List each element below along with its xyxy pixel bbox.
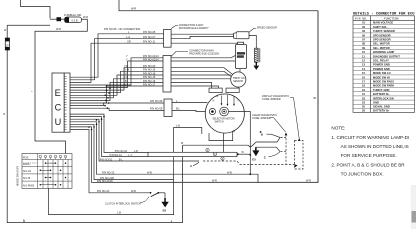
svg-text:P/N NO-11: P/N NO-11: [143, 41, 156, 44]
svg-text:C: C: [264, 156, 267, 160]
svg-text:0.3 B: 0.3 B: [72, 19, 78, 23]
svg-text:03: 03: [362, 29, 365, 33]
wire W-R from fusible link: [35, 19, 87, 153]
svg-text:BATTERY B+: BATTERY B+: [373, 109, 390, 113]
wire ECU pin14 to E5 line: [70, 114, 148, 152]
svg-text:N/1-LO: N/1-LO: [23, 170, 31, 173]
svg-text:SELECTOR MOTOR/: SELECTOR MOTOR/: [213, 119, 235, 121]
labels J3 wires: [150, 100, 181, 110]
svg-text:P/N NO-23: P/N NO-23: [97, 190, 110, 193]
svg-text:P/N NO-17: P/N NO-17: [143, 83, 156, 86]
svg-text:CODE JUMPER: CODE JUMPER: [262, 97, 281, 101]
wire ECU pin19: [70, 127, 97, 182]
svg-text:MAIN VOLTAGE: MAIN VOLTAGE: [373, 21, 393, 25]
svg-text:CODE JUMPER: CODE JUMPER: [252, 116, 271, 120]
svg-text:14: 14: [362, 67, 365, 71]
svg-text:MODE SW PARK: MODE SW PARK: [373, 84, 394, 88]
svg-text:A: A: [190, 164, 192, 168]
cable assembly rect: [148, 152, 237, 156]
svg-text:P/N NO-18: P/N NO-18: [143, 72, 156, 75]
svg-text:GR: GR: [127, 41, 131, 44]
wire J3 pin2 to selector motor left terminal: [172, 110, 209, 111]
svg-text:W-B: W-B: [131, 190, 136, 193]
svg-text:MODE SW LO: MODE SW LO: [373, 71, 391, 75]
svg-text:B1: B1: [314, 97, 318, 100]
svg-text:L-B: L-B: [176, 125, 180, 128]
junction dots bus: [88, 85, 111, 130]
label A with leader: [193, 162, 199, 166]
ground arrow below coil: [253, 62, 259, 70]
svg-text:P/N NO-09: P/N NO-09: [150, 108, 163, 111]
mode switch table: [22, 154, 72, 189]
wire ECU pin11 to connector J2 pin8: [70, 86, 163, 103]
wire ECU pin13 to connector J3 pin2: [70, 108, 164, 110]
ground arrow E9: [161, 198, 168, 207]
leader display jumper: [290, 98, 299, 139]
svg-text:GND: GND: [373, 101, 379, 105]
svg-text:W-B: W-B: [227, 171, 232, 174]
svg-text:15: 15: [362, 71, 365, 75]
svg-text:THROT. SENSOR: THROT. SENSOR: [373, 29, 395, 33]
svg-text:L-Y: L-Y: [129, 154, 133, 157]
table row texts: [362, 21, 400, 113]
svg-text:P/N NO-03: P/N NO-03: [143, 65, 156, 68]
svg-text:P/N NO-16: P/N NO-16: [143, 69, 156, 72]
svg-text:13: 13: [362, 63, 365, 67]
svg-text:+: +: [31, 90, 33, 93]
svg-text:19: 19: [362, 88, 365, 92]
svg-text:B: B: [181, 141, 183, 145]
svg-text:SWITCH: SWITCH: [215, 122, 224, 124]
ECU U1 body: [52, 73, 70, 132]
connector J1 3-way body: [164, 30, 172, 48]
svg-text:L-G: L-G: [126, 36, 130, 39]
svg-text:N/1-HI: N/1-HI: [23, 177, 31, 180]
wire point B vertical: [183, 145, 251, 147]
svg-text:02: 02: [362, 25, 365, 29]
note text block: [331, 126, 409, 177]
wire ECU pin20 P/N NO-21/26: [70, 130, 97, 193]
svg-text:CLUTCH INTERLOCK SWITCH: CLUTCH INTERLOCK SWITCH: [105, 202, 141, 205]
svg-text:01: 01: [362, 21, 365, 25]
svg-text:P/N NO-05 : NO CONNECTION: P/N NO-05 : NO CONNECTION: [104, 27, 140, 31]
svg-text:SIGNAL GND: SIGNAL GND: [373, 105, 390, 109]
svg-text:W-R: W-R: [131, 7, 136, 11]
wire J2 pin7 to motor connector: [171, 82, 212, 88]
coil to ground: [255, 48, 260, 62]
svg-text:SPD SENSOR: SPD SENSOR: [373, 38, 391, 42]
svg-text:W-R: W-R: [212, 180, 217, 183]
svg-text:N/1-PASS: N/1-PASS: [23, 184, 35, 187]
svg-text:B: B: [261, 133, 264, 137]
svg-text:Y-R: Y-R: [124, 76, 128, 79]
wire ECU pin4 to connector J2 pin1: [70, 58, 163, 85]
svg-text:18: 18: [362, 84, 365, 88]
wire battery feed top-left entry: [21, 0, 51, 19]
svg-text:W-R: W-R: [56, 27, 61, 31]
svg-text:09: 09: [362, 46, 365, 50]
svg-text:Y-B: Y-B: [124, 65, 128, 68]
mode table row labels: [23, 157, 35, 188]
svg-text:05: 05: [362, 33, 365, 37]
svg-text:SEL. MOTOR: SEL. MOTOR: [373, 42, 390, 46]
svg-text:THROT. GND: THROT. GND: [373, 88, 389, 92]
wire ECU pin15 to cable top: [70, 117, 148, 157]
svg-text:P/N NO-15: P/N NO-15: [143, 76, 156, 79]
labels P/N lower wires: [97, 150, 311, 183]
wire ECU pin10 to connector J2 pin7: [70, 82, 163, 100]
svg-text:DETAILS - CONNECTOR FOR ECU: DETAILS - CONNECTOR FOR ECU: [353, 12, 415, 16]
motor terminal center: [220, 107, 229, 116]
svg-text:W: W: [242, 151, 245, 154]
clutch interlock switch SW2: [97, 192, 165, 197]
svg-text:AS SHOWN IN DOTTED LINE,IS: AS SHOWN IN DOTTED LINE,IS: [341, 144, 409, 149]
svg-text:W: W: [4, 29, 7, 32]
fuse F1: [5, 25, 9, 50]
wire J1 pin2 to coil via jog: [171, 36, 234, 38]
svg-text:17: 17: [362, 80, 365, 84]
mode table contact bars: [40, 163, 55, 185]
svg-text:MODE SW PASS: MODE SW PASS: [373, 80, 394, 84]
svg-text:SOL. RELAY: SOL. RELAY: [373, 59, 389, 63]
wire J2 pin8 to motor connector: [171, 86, 219, 88]
svg-text:B: B: [4, 113, 6, 116]
labels J1 wire colors: [126, 31, 156, 43]
svg-text:DIAGNOSIS OUTPUT: DIAGNOSIS OUTPUT: [373, 54, 400, 58]
junction dot cable end: [237, 153, 239, 155]
throttle sensor TP1: [231, 72, 246, 87]
wire ECU pin7 to connector J2 pin4: [70, 71, 163, 92]
svg-text:PACKARD ELE-12110293: PACKARD ELE-12110293: [189, 51, 219, 55]
svg-text:FOR SERVICE PURPOSE.: FOR SERVICE PURPOSE.: [341, 153, 397, 158]
motor lower bracket: [209, 131, 233, 152]
motor terminal left: [209, 108, 215, 114]
svg-text:W-B: W-B: [147, 171, 152, 174]
svg-text:NOTE:: NOTE:: [331, 126, 345, 131]
terminal circled 2: [213, 152, 216, 156]
speed sensor SP1: [234, 32, 249, 39]
connector J2 8-way body: [163, 56, 171, 93]
svg-text:P/N NO.: P/N NO.: [355, 17, 368, 21]
motor connector tab left: [209, 88, 222, 92]
svg-text:1. CIRCUIT FOR WARNING LAMP-DI: 1. CIRCUIT FOR WARNING LAMP-DI: [331, 135, 409, 140]
svg-text:12: 12: [362, 59, 365, 63]
node connector square to fusible link: [57, 17, 62, 21]
svg-text:10: 10: [6, 44, 9, 48]
svg-text:23: 23: [362, 101, 365, 105]
wire ECU pin3 to connector J1 pin3: [70, 43, 164, 82]
svg-text:POWER GND: POWER GND: [373, 67, 390, 71]
svg-text:21: 21: [362, 92, 365, 96]
wire J2 pin1 to shift motor diagonal: [171, 55, 235, 57]
wire ECU pin8 to connector J2 pin5: [70, 75, 163, 95]
label SHIFT MOTOR block: [237, 52, 245, 55]
bracket B jumper: [250, 137, 280, 147]
svg-text:TO JUNCTION BOX.: TO JUNCTION BOX.: [341, 172, 384, 177]
fusible link FL: [61, 17, 82, 23]
svg-text:P/N NO-21/26: P/N NO-21/26: [97, 180, 113, 183]
svg-text:THROT ON: THROT ON: [233, 78, 245, 80]
svg-text:SPD SENSOR: SPD SENSOR: [373, 33, 391, 37]
svg-text:P/N NO-22: P/N NO-22: [102, 171, 115, 174]
svg-text:B-Y: B-Y: [124, 83, 129, 86]
svg-text:P/N NO-08: P/N NO-08: [150, 100, 163, 103]
svg-text:22: 22: [362, 96, 365, 100]
svg-text:BATTERY B+: BATTERY B+: [373, 92, 390, 96]
svg-text:25: 25: [362, 105, 365, 109]
mode table contact dots: [40, 162, 67, 185]
motor connector tab right: [226, 88, 239, 92]
svg-text:SEL. MOTOR: SEL. MOTOR: [373, 46, 390, 50]
wire cable end to junction: [239, 153, 251, 155]
svg-text:POWER GND: POWER GND: [373, 63, 390, 67]
wire J1 pin1 to speed sensor: [171, 33, 234, 35]
svg-text:MODE SW HI: MODE SW HI: [373, 75, 390, 79]
wire J2 pin3 to throttle sensor: [171, 68, 233, 75]
callout leader J1: [171, 26, 178, 29]
wire W-R main loop top: [119, 0, 318, 11]
wire J2 pin5 to throttle sensor: [171, 74, 231, 76]
svg-text:E5: E5: [252, 157, 256, 161]
svg-text:W-R: W-R: [83, 15, 88, 19]
leader clear jumper: [270, 118, 286, 133]
wire L-B from mode switch loop: [49, 128, 202, 215]
svg-text:FUNCTION: FUNCTION: [384, 18, 399, 21]
wire ECU pin2 to connector J1 pin2: [70, 39, 164, 80]
svg-text:POS: POS: [23, 157, 29, 160]
table rows: [353, 25, 415, 109]
bracket C to ground: [256, 147, 280, 152]
wire ECU pin6 to connector J2 pin3: [70, 68, 163, 90]
wire J1 pin3 to shift motor cap: [171, 42, 238, 44]
mode table terminals: [39, 155, 67, 159]
ground arrow E5: [252, 147, 259, 156]
svg-text:GY: GY: [124, 72, 128, 75]
svg-text:P/N NO-05: P/N NO-05: [143, 31, 156, 34]
svg-text:U: U: [55, 117, 62, 127]
wire ECU pin16 to cable bottom: [70, 119, 199, 161]
point B jumper area: [267, 134, 281, 137]
svg-text:26: 26: [362, 109, 365, 113]
svg-text:L-B: L-B: [117, 212, 121, 215]
svg-text:E9: E9: [163, 208, 167, 212]
callout leader J2: [171, 52, 188, 57]
ECU pin ticks: [65, 76, 67, 129]
wire throttle sensor to tab: [237, 87, 239, 88]
mode table PARK row hatch: [23, 162, 37, 164]
shift motor M2: [235, 42, 246, 68]
wire ECU pin1 to connector J1 pin1: [70, 34, 164, 77]
wire J2 pin4 to throttle sensor: [171, 71, 231, 76]
svg-text:PACKARD ELE-12040977: PACKARD ELE-12040977: [179, 26, 209, 30]
wire J2 pin2 to throttle sensor top: [171, 61, 240, 72]
terminal circled 3: [221, 157, 224, 161]
svg-text:INTERLOCK SW: INTERLOCK SW: [373, 96, 394, 100]
dashed arrowheads: [285, 132, 301, 167]
svg-text:P/N NO-07: P/N NO-07: [143, 36, 156, 39]
svg-text:16: 16: [362, 75, 365, 79]
svg-text:P/N NO-02: P/N NO-02: [100, 158, 113, 161]
selector motor internals: [222, 95, 235, 105]
svg-text:07: 07: [362, 38, 365, 42]
svg-text:W-R: W-R: [306, 180, 311, 183]
svg-text:L-R: L-R: [134, 150, 138, 153]
svg-text:WARNING LAMP: WARNING LAMP: [373, 50, 395, 54]
svg-text:MODE SW ASSY: MODE SW ASSY: [16, 166, 20, 186]
wire ECU pin17 to point A: [70, 122, 258, 183]
label CLUTCH INTERLOCK SWITCH: [140, 197, 149, 203]
wire fuse down-left long run: [7, 50, 182, 223]
scrollbar sliver: [411, 185, 416, 229]
terminal circled 1: [206, 148, 209, 152]
wire motor right terminal down junction: [229, 112, 251, 175]
svg-text:P/N NO-19: P/N NO-19: [143, 80, 156, 83]
wire ECU pin5 to connector J2 pin2: [70, 61, 163, 88]
wire ECU pin9 to connector J2 pin6: [70, 79, 163, 98]
svg-text:FUSIBLE LINK: FUSIBLE LINK: [64, 13, 82, 17]
wire switch to ground E9: [164, 193, 166, 200]
wire ECU pin12 to connector J3 pin1: [70, 103, 164, 106]
svg-text:B-L: B-L: [119, 158, 124, 161]
svg-text:10: 10: [362, 50, 365, 54]
svg-text:E: E: [55, 88, 61, 98]
labels J2 wire colors: [124, 55, 159, 86]
svg-text:SENSOR: SENSOR: [233, 81, 243, 83]
svg-text:G-W: G-W: [124, 69, 130, 72]
wire fuse branch: [7, 24, 50, 26]
wire ECU pin18 W-B: [70, 124, 174, 179]
svg-text:C: C: [55, 103, 62, 113]
svg-text:P/N NO-10: P/N NO-10: [115, 150, 128, 153]
wire J2 pin6 to throttle sensor: [171, 78, 231, 80]
dashed jumper lines: [281, 135, 304, 170]
svg-text:2. POINT A, B & C SHOULD BE BR: 2. POINT A, B & C SHOULD BE BR: [331, 162, 405, 167]
selector motor M1 circle: [205, 94, 244, 133]
connector J3 2-way body: [164, 99, 172, 117]
svg-text:SHIFT SOL.: SHIFT SOL.: [373, 25, 388, 29]
point A dashed: [203, 161, 295, 164]
callout leader speed sensor: [249, 28, 256, 32]
svg-text:08: 08: [362, 42, 365, 46]
pin table frame: [353, 16, 415, 113]
svg-text:P/N NO-02/14: P/N NO-02/14: [143, 58, 159, 61]
svg-text:P/N NO-12: P/N NO-12: [110, 154, 123, 157]
label C jumper with leader: [269, 152, 281, 157]
wire J3 pin1 to selector motor center terminal: [172, 101, 207, 103]
svg-text:SPEED SENSOR: SPEED SENSOR: [257, 26, 277, 30]
